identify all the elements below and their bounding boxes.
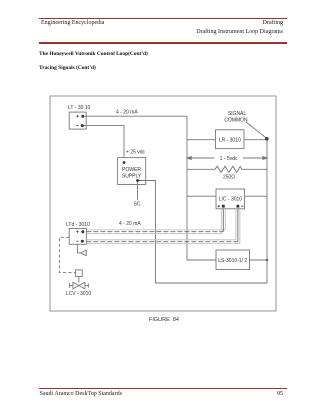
cable tube upper (LTd+ to LIC) (86, 209, 225, 234)
svg-text:LR - 3010: LR - 3010 (219, 138, 241, 144)
wire LS left lead (187, 259, 216, 261)
junction dot LS right lead (266, 259, 268, 261)
svg-text:SUPPLY: SUPPLY (122, 174, 142, 180)
cable tube lower (LTd- to LIC) (86, 209, 240, 244)
terminal power supply top (123, 161, 126, 164)
pipe stub left (69, 285, 73, 287)
switch LS-3010-1/2 box (216, 250, 250, 270)
junction dot signal common (265, 137, 269, 141)
dashed signal to valve (59, 237, 75, 272)
svg-text:LS-3010-1/ 2: LS-3010-1/ 2 (218, 258, 247, 264)
resistor 250 ohm (187, 166, 267, 172)
pipe stub right (85, 285, 89, 287)
LTd sensor horn (77, 244, 86, 255)
polarity mark LT - (76, 125, 78, 127)
cable riser to LIC + terminal (222, 209, 224, 232)
wire power supply SC lead (137, 181, 139, 200)
power supply box (118, 158, 146, 185)
terminal LT - (81, 124, 84, 127)
terminal power supply bottom (136, 179, 139, 182)
svg-text:4 - 20 mA: 4 - 20 mA (119, 221, 141, 227)
valve stem (78, 277, 80, 283)
header right text line 1 (163, 20, 283, 26)
wire LT- to power supply (83, 126, 124, 158)
polarity mark LT + (76, 115, 78, 117)
terminal LT + (81, 115, 84, 118)
svg-text:COMMON: COMMON (224, 118, 248, 124)
polarity mark LTd + (76, 231, 78, 233)
svg-text:LCV - 3010: LCV - 3010 (66, 291, 92, 297)
header left text (41, 20, 104, 26)
transmitter LTd-3010 box (69, 228, 86, 244)
svg-text:SC: SC (134, 202, 141, 208)
transmitter LT-3010 box (69, 112, 86, 129)
svg-text:POWER: POWER (122, 167, 141, 173)
wire LS right lead (250, 259, 268, 261)
wire LIC right lead (245, 195, 268, 197)
footer left text (40, 391, 122, 397)
figure frame (50, 96, 276, 311)
control valve LCV-3010 body (69, 282, 89, 289)
polarity mark LTd - (76, 240, 78, 242)
wire right bus vertical (266, 139, 268, 283)
terminal LTd + (81, 230, 84, 233)
dimension line 1-5vdc (187, 157, 267, 160)
terminal LIC + (222, 205, 225, 208)
svg-text:LTd - 3010: LTd - 3010 (66, 222, 90, 228)
header rule bottom (thick) (39, 42, 287, 44)
wire LR left lead (187, 139, 216, 141)
svg-text:LT - 30 10: LT - 30 10 (68, 105, 91, 111)
title 2 (39, 65, 96, 71)
cable core dashed upper (86, 209, 238, 242)
svg-text:SIGNAL: SIGNAL (228, 111, 247, 117)
wire LIC left lead (187, 195, 216, 197)
svg-text:250Ω: 250Ω (223, 175, 235, 181)
svg-text:FIGURE 84: FIGURE 84 (149, 317, 179, 323)
cable core dashed lower (86, 241, 238, 243)
header rule top (39, 18, 287, 19)
terminal LTd - (81, 240, 84, 243)
footer page number (203, 391, 283, 397)
terminal LIC - (237, 205, 240, 208)
polarity mark LIC + (218, 205, 220, 207)
dimension text backing (214, 154, 243, 162)
valve actuator square (76, 270, 83, 277)
svg-text:+ 25 vdc: + 25 vdc (126, 149, 146, 155)
wire left bus vertical (186, 116, 188, 260)
cable riser to LIC - terminal (237, 209, 239, 242)
controller LIC-3010 box (216, 189, 245, 209)
wire power supply return (138, 181, 268, 284)
svg-text:1 - 5vdc: 1 - 5vdc (220, 156, 238, 162)
wire LT+ output 4-20mA (83, 115, 187, 117)
header right text line 2 (143, 29, 283, 35)
svg-text:4 - 20 mA: 4 - 20 mA (116, 110, 138, 116)
footer rule (39, 388, 287, 389)
title 1 (39, 51, 148, 57)
signal common leader line (246, 122, 266, 138)
polarity mark LIC - (241, 205, 243, 207)
wire LR right lead (244, 139, 267, 141)
svg-text:LIC - 3010: LIC - 3010 (219, 196, 243, 202)
recorder LR-3010 box (216, 130, 245, 149)
